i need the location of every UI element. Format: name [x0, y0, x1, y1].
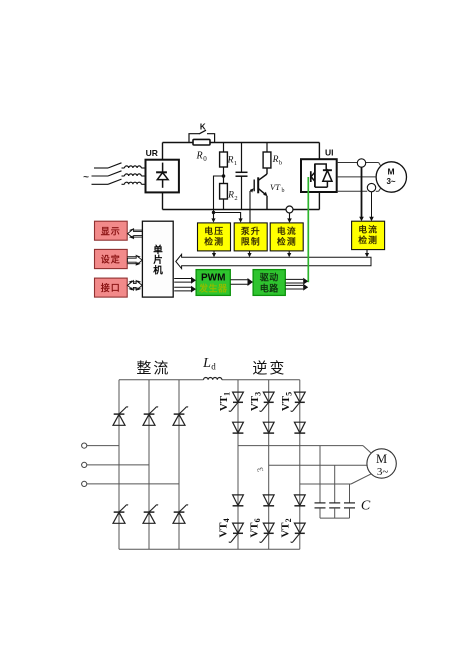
diode inside UR [162, 163, 164, 173]
arrow MCU to display [131, 229, 142, 231]
wire inverter output row 3 [300, 483, 351, 485]
block interface (jiekou) [95, 278, 128, 297]
svg-text:VT6: VT6 [248, 518, 262, 537]
svg-text:3~: 3~ [377, 466, 389, 478]
wire UR bottom lead [162, 192, 164, 209]
resistor Rb [263, 152, 271, 168]
thyristor rectifier bottom leg 3 [174, 511, 185, 513]
arrow interface to/from MCU [131, 281, 140, 283]
block drive circuit (qudong dianlu) [253, 270, 285, 296]
svg-text:b: b [282, 188, 285, 194]
svg-text:3~: 3~ [386, 177, 395, 186]
svg-text:R: R [227, 191, 234, 201]
wire divider tap to voltage detector [214, 176, 224, 219]
thyristor rectifier top leg 1 [114, 413, 125, 415]
arrow current-detect-DC to bus [288, 251, 290, 254]
switch phase A [108, 163, 122, 168]
wire inverter leg 1 [237, 380, 239, 550]
diode series top leg 2 [263, 422, 274, 433]
svg-text:检测: 检测 [277, 235, 297, 246]
svg-text:VT4: VT4 [218, 518, 232, 537]
resistor R1 branch wire [223, 143, 225, 153]
choke phase C [122, 183, 125, 185]
thyristor VT2 [294, 523, 305, 533]
wire rectifier leg 3 [178, 380, 180, 550]
wire capacitor common [320, 517, 350, 519]
resistor R2 [220, 184, 228, 200]
arrow PWM to drive [231, 280, 248, 284]
arrow MCU to PWM (lower) [174, 287, 191, 291]
svg-text:0: 0 [203, 155, 207, 163]
arrow sensor W to current-detect [371, 192, 373, 218]
wire rectifier leg 1 [118, 380, 120, 550]
thyristor rectifier top leg 2 [144, 413, 155, 415]
diode series bottom leg 2 [263, 495, 274, 506]
svg-text:检测: 检测 [204, 235, 224, 246]
choke phase B [122, 175, 125, 177]
svg-text:电流: 电流 [358, 223, 378, 234]
feedback bus arrow to MCU [176, 254, 371, 268]
svg-text:显示: 显示 [101, 226, 121, 236]
motor M 3-phase (bottom) [367, 449, 396, 478]
wire inverter output row 1 [238, 445, 363, 447]
thyristor VT4 [233, 523, 244, 533]
svg-text:UR: UR [146, 148, 158, 158]
svg-text:电路: 电路 [260, 283, 280, 294]
arrow MCU to PWM (upper) [174, 279, 191, 283]
svg-text:VT: VT [270, 182, 281, 192]
svg-text:R: R [227, 156, 234, 166]
current sensor DC bus [286, 206, 293, 213]
wire inverter output U [337, 162, 357, 164]
arrow setting to MCU [127, 256, 138, 258]
svg-text:R: R [195, 151, 202, 162]
arrow drive to gate wire (upper) [286, 279, 304, 283]
IGBT inside UI [314, 164, 316, 188]
svg-text:L: L [202, 356, 211, 371]
svg-text:发生器: 发生器 [198, 283, 228, 294]
svg-text:电流: 电流 [277, 225, 297, 236]
arrow sensor to current-detect box [289, 213, 291, 220]
svg-text:VT5: VT5 [280, 392, 294, 411]
wire UI top lead [318, 143, 320, 160]
terminal input phase 1 [82, 443, 87, 448]
svg-text:驱动: 驱动 [260, 273, 279, 283]
wire bottom DC rail [119, 548, 300, 550]
block setting (sheding) [95, 249, 128, 268]
wire gate drive from pump-limit [249, 191, 251, 223]
svg-text:2: 2 [234, 195, 237, 202]
svg-text:设定: 设定 [101, 254, 121, 265]
wire inverter output V [337, 176, 376, 178]
svg-text:~: ~ [83, 172, 89, 183]
motor M 3-phase (top) [376, 162, 406, 192]
svg-text:片: 片 [153, 254, 163, 266]
diode series top leg 3 [294, 422, 305, 433]
node R1/R2 junction [222, 174, 226, 178]
resistor Rb branch wire [266, 143, 268, 153]
inductor Ld [204, 377, 222, 379]
wire inverter leg 3 [299, 380, 301, 550]
switch K blade [199, 130, 206, 134]
inverter UI box [301, 159, 337, 192]
block voltage detect (dianya jiance) [198, 223, 231, 251]
wire phase B input [92, 175, 109, 177]
block MCU (danpianji) [142, 221, 173, 297]
svg-text:接口: 接口 [101, 282, 121, 293]
svg-text:电压: 电压 [204, 225, 224, 236]
wire input phase 3 [87, 483, 179, 485]
wire phase A input [94, 167, 108, 169]
arrow into voltage detect [211, 218, 215, 222]
svg-text:VT3: VT3 [249, 392, 263, 411]
arrow drive to gate wire (lower) [286, 285, 304, 289]
svg-text:M: M [387, 166, 394, 176]
wire UR top lead [162, 143, 164, 160]
wire input phase 2 [87, 464, 149, 466]
svg-text:逆变: 逆变 [252, 360, 286, 377]
capacitor filter C1 [241, 143, 243, 173]
block current detect DC (dianliu jiance) [270, 223, 303, 251]
capacitor bank branch 3 [349, 484, 351, 503]
thyristor VT6 [263, 523, 274, 533]
choke phase A [122, 167, 125, 169]
wire top DC rail [119, 379, 204, 381]
gate drive wire (green) to UI [307, 177, 309, 282]
wire phase C input [92, 183, 109, 185]
diode series bottom leg 1 [233, 495, 244, 506]
svg-text:d: d [211, 362, 216, 372]
svg-text:机: 机 [153, 265, 163, 277]
current sensor output W [367, 183, 375, 191]
svg-text:泵升: 泵升 [241, 225, 261, 236]
svg-text:检测: 检测 [358, 234, 378, 245]
svg-text:整流: 整流 [136, 360, 170, 377]
transistor VTb [266, 168, 268, 174]
block pump-up limit (bengsheng xianzhi) [234, 223, 267, 251]
svg-text:UI: UI [325, 148, 334, 158]
block display (xianshi) [95, 221, 128, 240]
arrow sensor U to current-detect [361, 167, 363, 218]
svg-text:M: M [376, 452, 387, 466]
capacitor bank branch 2 [334, 465, 336, 502]
diode series top leg 1 [233, 422, 244, 433]
block PWM generator [196, 270, 230, 296]
thyristor rectifier bottom leg 2 [144, 511, 155, 513]
svg-text:b: b [279, 160, 282, 167]
wire tap branch to pump-limit box [214, 213, 241, 219]
svg-text:K: K [200, 122, 206, 131]
wire inverter leg 2 [268, 380, 270, 550]
capacitor bank branch 1 [319, 446, 321, 503]
arrow into pump-up limit [239, 218, 243, 222]
svg-text:R: R [272, 155, 279, 165]
rectifier UR box [146, 160, 179, 193]
switch K bypass wire [189, 134, 199, 143]
svg-text:C: C [361, 499, 371, 514]
arrow pump-limit to bus [249, 251, 251, 254]
switch phase B [108, 171, 122, 176]
diode series bottom leg 3 [294, 495, 305, 506]
svg-text:PWM: PWM [201, 273, 225, 284]
terminal input phase 2 [82, 462, 87, 467]
block current detect output (dianliu jiance) [352, 221, 385, 249]
svg-text:VT2: VT2 [280, 518, 294, 537]
resistor R1 [220, 152, 228, 167]
wire inverter output W [337, 190, 367, 192]
terminal input phase 3 [82, 481, 87, 486]
wire input phase 1 [87, 445, 119, 447]
svg-text:VT1: VT1 [218, 392, 232, 411]
node tap/bus crossing [212, 211, 215, 214]
arrow voltage-detect to bus [213, 251, 215, 254]
thyristor VT1 [233, 392, 244, 402]
wire rectifier leg 2 [148, 380, 150, 550]
wire bottom DC bus [163, 209, 320, 211]
resistor R0 [193, 139, 210, 145]
switch phase C [108, 179, 122, 184]
current sensor output U [357, 159, 365, 167]
svg-text:3: 3 [255, 466, 266, 473]
wire inverter output row 2 [269, 464, 367, 466]
svg-text:1: 1 [234, 160, 237, 167]
thyristor VT3 [263, 392, 274, 402]
wire top DC bus [163, 142, 320, 144]
thyristor rectifier bottom leg 1 [114, 511, 125, 513]
svg-text:限制: 限制 [241, 235, 261, 246]
thyristor VT5 [294, 392, 305, 402]
wire UI bottom lead [318, 192, 320, 210]
thyristor rectifier top leg 3 [174, 413, 185, 415]
arrow current-detect-out to bus [366, 250, 368, 255]
svg-text:单: 单 [153, 244, 163, 256]
